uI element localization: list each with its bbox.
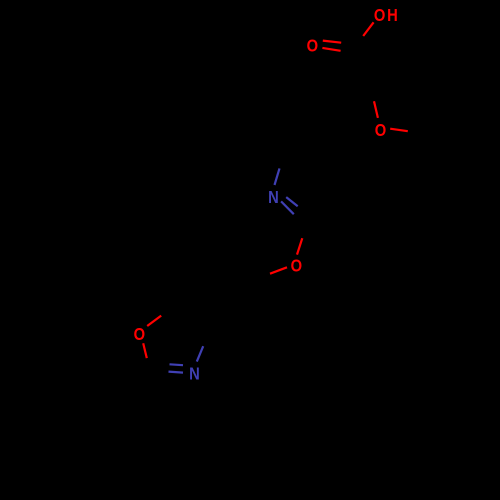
svg-text:O: O <box>374 6 386 26</box>
svg-text:O: O <box>375 120 387 140</box>
svg-text:N: N <box>268 188 279 208</box>
svg-text:O: O <box>291 256 303 276</box>
svg-text:O: O <box>134 324 146 344</box>
svg-text:O: O <box>307 36 319 56</box>
svg-text:N: N <box>189 364 200 384</box>
svg-text:H: H <box>387 6 398 26</box>
